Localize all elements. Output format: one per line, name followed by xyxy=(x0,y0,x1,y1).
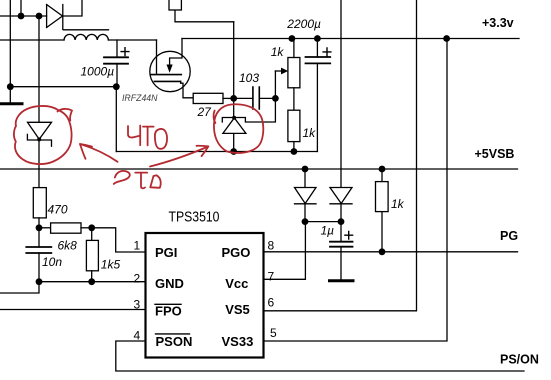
node N junction dot (39,281.7) xyxy=(36,278,43,285)
node Q junction dot (305,169) xyxy=(302,166,309,173)
svg-text:27: 27 xyxy=(197,105,213,119)
capacitor C5 1µ leads xyxy=(340,222,342,279)
svg-text:470: 470 xyxy=(48,202,68,216)
wire jog from top box xyxy=(175,10,234,22)
wire vertical left x=10.3 xyxy=(9,0,11,102)
red text ето xyxy=(114,171,130,184)
wire PSON pin4 net xyxy=(116,341,524,371)
node B junction dot (39,16) xyxy=(36,13,43,20)
svg-text:GND: GND xyxy=(155,276,184,291)
svg-text:Vcc: Vcc xyxy=(225,276,248,291)
transistor Q1 IRFZ44N body circle xyxy=(150,51,190,91)
diode D4 xyxy=(295,188,317,204)
wire R4 to node M xyxy=(81,227,92,229)
ground below C5 xyxy=(330,279,354,282)
node I junction dot (317.4,38.5) xyxy=(314,35,321,42)
wire R1 to node xyxy=(223,97,234,99)
rail +3.3v xyxy=(182,38,519,40)
svg-text:VS33: VS33 xyxy=(222,334,254,349)
capacitor C5 plus sign xyxy=(345,231,353,239)
wire vertical stub x=21 xyxy=(20,0,22,16)
wire down from C1 node xyxy=(115,87,117,152)
red arrow to right circle xyxy=(150,147,207,167)
inductor L1 winding xyxy=(64,34,108,40)
capacitor C1 1000µ leads xyxy=(116,40,118,87)
component box top (winding) xyxy=(169,0,181,10)
node J junction dot (446.6,38.5) xyxy=(443,35,450,42)
node small dot D3 apex xyxy=(232,116,236,120)
wire pin1 net from node M xyxy=(92,228,146,252)
op-amp U1 TPS3510 IC body xyxy=(146,233,264,358)
potentiometer RV1 wiper arrow xyxy=(275,70,281,72)
wire diode cathode to up-stub xyxy=(63,0,82,16)
node K junction dot (293.9,151.5) xyxy=(291,148,298,155)
svg-text:10n: 10n xyxy=(42,255,62,269)
red circle around D2 xyxy=(14,106,72,164)
node S junction dot (341,221.6) xyxy=(338,218,345,225)
svg-text:2: 2 xyxy=(134,272,141,286)
inductor L1 core line xyxy=(64,29,109,31)
capacitor C5 1µ plates xyxy=(330,242,353,247)
capacitor C1 plus sign xyxy=(121,48,129,56)
svg-text:1000µ: 1000µ xyxy=(81,65,115,79)
diode D5 xyxy=(330,188,352,204)
zener D3 triangle xyxy=(223,118,246,133)
svg-text:+5VSB: +5VSB xyxy=(475,147,515,161)
diode D1 top-left xyxy=(47,5,63,30)
resistor R5 1k5 xyxy=(86,240,98,270)
svg-text:PGO: PGO xyxy=(222,245,251,260)
wire left rail into inductor xyxy=(0,39,64,41)
red tick near D3 circle xyxy=(214,111,216,124)
node P junction dot (382,251.8) xyxy=(379,248,386,255)
svg-text:PS/ON: PS/ON xyxy=(500,352,539,366)
svg-text:1k: 1k xyxy=(271,45,285,59)
wire node L to R4 xyxy=(39,227,51,229)
wire GND net to left edge xyxy=(0,282,146,293)
transistor Q1 gate bar xyxy=(154,80,180,82)
red circle around D3 xyxy=(214,104,263,153)
svg-text:PSON: PSON xyxy=(156,334,193,349)
wire top-left horizontal input xyxy=(0,15,47,17)
ground top-left xyxy=(0,102,22,105)
resistor R6 1k right xyxy=(376,182,389,212)
wire between D4 D5 cathodes xyxy=(305,221,341,223)
wire long vertical x=233.7 xyxy=(233,22,235,152)
resistor R2 bottom lead xyxy=(293,142,295,152)
diode D5 bottom lead xyxy=(340,204,342,222)
svg-text:1: 1 xyxy=(134,238,141,252)
node F junction dot (233.7,151.5) xyxy=(230,148,237,155)
wire down into MOSFET source xyxy=(156,40,158,74)
potentiometer RV1 1k body xyxy=(288,58,300,88)
svg-text:5: 5 xyxy=(270,326,277,340)
diode D4 bottom lead xyxy=(304,204,306,222)
node R junction dot (305,221.6) xyxy=(302,218,309,225)
wire FPO pin3 to left edge xyxy=(0,309,146,311)
capacitor C1 1000µ plates xyxy=(104,57,128,63)
resistor R1 27 xyxy=(193,93,223,103)
wire pin6 VS5 net xyxy=(264,0,417,311)
wire inductor to MOSFET xyxy=(108,39,156,41)
svg-text:VS5: VS5 xyxy=(225,302,250,317)
zener D3 (circled right) bar with hooks xyxy=(222,118,245,123)
node E junction dot (233.7,98.4) xyxy=(230,95,237,102)
node D junction dot (116.3,86.7) xyxy=(113,83,120,90)
svg-text:7: 7 xyxy=(268,270,275,284)
resistor R2 1k middle xyxy=(288,110,300,141)
transistor Q1 drain path with arrow xyxy=(170,39,182,65)
node G junction dot (275.4,98.4) xyxy=(272,95,279,102)
diode D5 lead from top xyxy=(340,0,342,188)
wire source feedback line y=151.5 xyxy=(116,151,317,153)
transistor Q1 channel bar xyxy=(151,74,182,76)
zener D2 triangle xyxy=(28,122,52,139)
svg-text:TPS3510: TPS3510 xyxy=(169,210,220,226)
svg-text:1k5: 1k5 xyxy=(101,257,121,271)
resistor R3 bottom lead xyxy=(38,218,40,228)
potentiometer RV1 leads xyxy=(293,39,295,111)
node O junction dot (91.7,281.7) xyxy=(88,278,95,285)
svg-text:PGI: PGI xyxy=(155,245,177,260)
svg-text:1k: 1k xyxy=(391,197,405,211)
node A junction dot (21,16) xyxy=(18,13,25,20)
red hook on left circle xyxy=(58,109,73,121)
rail +5VSB xyxy=(0,168,518,170)
node L junction dot (39,227.8) xyxy=(36,224,43,231)
svg-text:103: 103 xyxy=(239,71,259,85)
svg-text:6k8: 6k8 xyxy=(58,238,78,252)
svg-text:+3.3v: +3.3v xyxy=(482,16,514,30)
svg-text:1k: 1k xyxy=(303,126,317,140)
capacitor C3 2200µ plates xyxy=(306,57,331,63)
capacitor C3 2200µ leads xyxy=(316,39,318,152)
wire pin8 PG line xyxy=(264,251,518,253)
node C junction dot (10.3,86.7) xyxy=(7,83,14,90)
capacitor C4 10n plates xyxy=(26,247,51,253)
capacitor C2 103 plates xyxy=(253,87,259,109)
wire wiper net vertical and to zener xyxy=(245,71,275,122)
capacitor C4 10n leads xyxy=(38,228,40,282)
wire bottom of C1 horizontal xyxy=(10,86,116,88)
wire pin7 Vcc net xyxy=(264,222,306,280)
resistor R6 1k right leads xyxy=(381,169,383,252)
svg-text:FPO: FPO xyxy=(155,304,182,319)
wire node E to C2 and C2 to wiper node xyxy=(236,97,275,99)
svg-text:2200µ: 2200µ xyxy=(286,17,321,31)
resistor R3 470 xyxy=(33,188,46,218)
transistor Q1 gate exit wire xyxy=(181,81,194,97)
svg-text:4: 4 xyxy=(134,329,141,343)
red arrow to left circle xyxy=(81,144,118,162)
node small dot D2 apex xyxy=(37,137,41,141)
resistor R5 leads xyxy=(91,228,93,282)
node H junction dot (291.9,38.5) xyxy=(289,35,296,42)
wire pin5 VS33 net xyxy=(264,39,448,342)
zener D2 (circled left) lead xyxy=(38,16,40,188)
svg-text:6: 6 xyxy=(268,296,275,310)
svg-text:3: 3 xyxy=(134,297,141,311)
node M junction dot (91.7,227.8) xyxy=(88,224,95,231)
svg-text:PG: PG xyxy=(500,229,518,243)
zener D2 bar with hooks xyxy=(27,134,51,146)
resistor R4 6k8 xyxy=(51,223,81,233)
svg-text:8: 8 xyxy=(268,238,275,252)
svg-text:IRFZ44N: IRFZ44N xyxy=(122,93,158,103)
node T junction dot (382,169) xyxy=(379,166,386,173)
svg-text:1µ: 1µ xyxy=(321,224,335,238)
capacitor C3 plus sign xyxy=(323,48,331,56)
red text ЧТО xyxy=(128,126,140,137)
diode D4 lead from +5VSB xyxy=(304,169,306,188)
